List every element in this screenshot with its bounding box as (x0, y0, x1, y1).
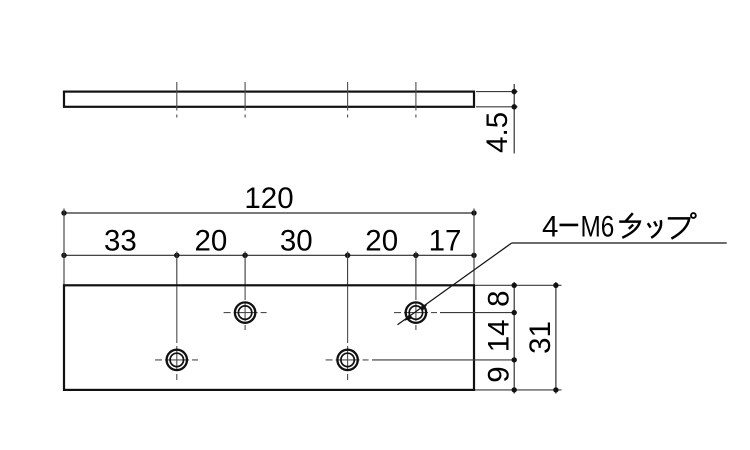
side view plate outline (64, 92, 474, 107)
katakana small TSU sweep (651, 220, 661, 238)
katakana PU bar and sweep (668, 218, 689, 238)
side view centerline (hole at 83) (347, 82, 349, 118)
hole H4 outer circle (337, 350, 357, 370)
segment dot x=53 (242, 253, 247, 258)
extension line front bottom right (475, 389, 562, 391)
svg-text:4.5: 4.5 (481, 112, 514, 153)
hole H1 inner circle (238, 306, 251, 319)
katakana PU handakuten circle (691, 213, 696, 218)
katakana small TSU tick1 (648, 223, 651, 227)
katakana TA stroke2 (619, 222, 640, 238)
svg-text:30: 30 (280, 224, 313, 257)
dimension dot right row1 (512, 310, 517, 315)
svg-text:M6: M6 (581, 211, 615, 244)
hole H3 vertical centerline (176, 286, 178, 380)
leader arrowhead lower (405, 314, 413, 320)
extension line x=103 (415, 252, 417, 286)
svg-text:33: 33 (104, 224, 137, 257)
extension line thickness top (476, 91, 518, 93)
hole H4 vertical centerline (347, 286, 349, 380)
katakana TA stroke1 (625, 213, 632, 221)
dimension dot 4.5 bottom (512, 104, 517, 109)
hole H3 horizontal centerline (155, 359, 198, 361)
dimension dot right row2 (512, 357, 517, 362)
segment dot x=0 (61, 253, 66, 258)
front view plate outline (64, 285, 474, 390)
extension line x=33 (176, 252, 178, 286)
segment dot x=120 (471, 253, 476, 258)
dimension dot 31 bottom (553, 387, 558, 392)
hole H4 horizontal centerline (326, 359, 369, 361)
extension line left edge (63, 209, 65, 286)
dimension line 4.5 (513, 84, 515, 154)
katakana TA stroke3 (629, 225, 633, 229)
dimension dot right bottom edge (512, 387, 517, 392)
svg-text:120: 120 (244, 182, 293, 215)
extension line x=83 (347, 252, 349, 286)
dimension line 8/14/9 (513, 282, 515, 394)
segment dot x=33 (174, 253, 179, 258)
dimension line 120 (64, 212, 474, 214)
hole H2 extension line to dimension 8 (440, 312, 514, 314)
extension line front top right (475, 284, 562, 286)
leader line horizontal (512, 242, 727, 244)
extension line x=53 (244, 252, 246, 286)
hole H3 inner circle (170, 353, 183, 366)
leader line diagonal (398, 243, 512, 325)
segment dot x=103 (413, 253, 418, 258)
svg-text:8: 8 (483, 290, 516, 306)
svg-text:17: 17 (429, 224, 462, 257)
dimension dot 4.5 top (512, 89, 517, 94)
dimension dot right top edge (512, 283, 517, 288)
dimension line 31 (555, 282, 557, 394)
callout long dash (560, 224, 579, 227)
hole H3 outer circle (167, 350, 187, 370)
svg-text:31: 31 (524, 321, 557, 354)
dimension dot 31 top (553, 283, 558, 288)
extension line thickness bottom (476, 106, 518, 108)
dimension dot 120 right (471, 210, 476, 215)
hole H1 vertical centerline (244, 286, 246, 332)
side view centerline (hole at 103) (415, 82, 417, 118)
hole H1 outer circle (235, 302, 255, 322)
hole H1 horizontal centerline (224, 312, 267, 314)
segment dot x=83 (345, 253, 350, 258)
hole H2 horizontal centerline (394, 312, 437, 314)
svg-text:4: 4 (542, 211, 558, 244)
katakana small TSU tick2 (654, 221, 657, 226)
dimension dot 120 left (61, 210, 66, 215)
hole H4 extension line to dimension 14 (372, 359, 514, 361)
side view centerline (hole at 33) (176, 82, 178, 118)
segment dimension line (64, 254, 474, 256)
hole H2 outer circle (406, 302, 426, 322)
svg-text:20: 20 (365, 224, 398, 257)
svg-text:9: 9 (483, 366, 516, 382)
side view centerline (hole at 53) (244, 82, 246, 118)
extension line right edge (473, 209, 475, 286)
hole H2 inner circle (409, 306, 422, 319)
leader arrowhead upper (420, 305, 428, 311)
svg-text:20: 20 (194, 224, 227, 257)
hole H2 vertical centerline (415, 286, 417, 332)
hole H4 inner circle (341, 353, 354, 366)
svg-text:14: 14 (483, 319, 516, 352)
